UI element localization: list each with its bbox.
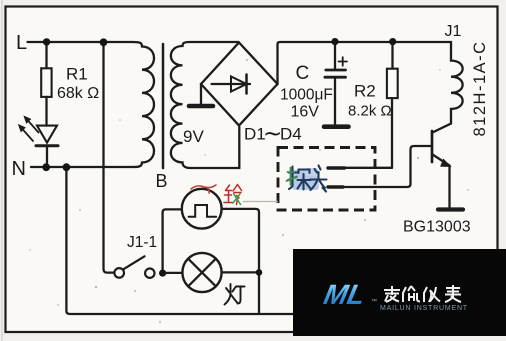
svg-text:16V: 16V — [291, 104, 320, 121]
svg-text:™: ™ — [371, 298, 377, 305]
svg-text:68k Ω: 68k Ω — [57, 85, 99, 102]
svg-text:812H-1A-C: 812H-1A-C — [471, 40, 489, 136]
svg-text:L: L — [16, 32, 27, 54]
svg-text:J1: J1 — [445, 23, 462, 40]
svg-text:C: C — [296, 63, 310, 84]
svg-text:9V: 9V — [183, 127, 204, 146]
svg-text:1000μF: 1000μF — [280, 87, 333, 104]
svg-text:8.2k Ω: 8.2k Ω — [348, 103, 392, 120]
svg-text:MAILUN INSTRUMENT: MAILUN INSTRUMENT — [380, 305, 468, 312]
svg-text:R2: R2 — [354, 82, 376, 101]
svg-text:ML: ML — [321, 278, 368, 310]
svg-text:B: B — [156, 171, 168, 191]
svg-text:BG13003: BG13003 — [403, 219, 471, 236]
svg-text:J1-1: J1-1 — [127, 234, 157, 251]
svg-text:D4: D4 — [280, 125, 302, 144]
svg-text:R1: R1 — [66, 65, 88, 84]
svg-text:N: N — [12, 158, 26, 180]
